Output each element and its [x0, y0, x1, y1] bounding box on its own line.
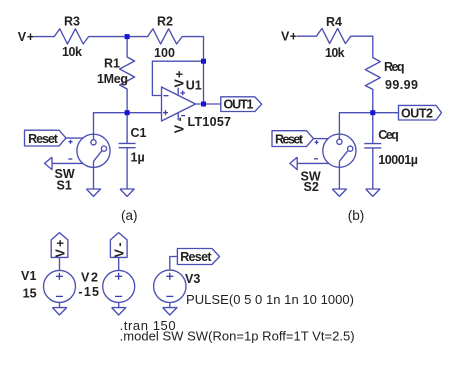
svg-text:R1: R1: [104, 57, 120, 71]
svg-text:R3: R3: [64, 15, 80, 29]
svg-text:U1: U1: [186, 79, 202, 93]
svg-text:1µ: 1µ: [131, 151, 145, 165]
svg-text:10001µ: 10001µ: [378, 153, 418, 167]
svg-text:R4: R4: [326, 15, 342, 29]
svg-text:10k: 10k: [325, 46, 345, 60]
svg-text:C1: C1: [131, 126, 147, 140]
svg-text:V-: V-: [113, 243, 127, 258]
svg-text:S2: S2: [304, 180, 319, 194]
svg-text:100: 100: [154, 46, 175, 60]
svg-text:V+: V+: [18, 30, 34, 44]
svg-text:OUT2: OUT2: [401, 106, 433, 120]
svg-text:LT1057: LT1057: [188, 115, 232, 129]
svg-text:OUT1: OUT1: [224, 98, 254, 112]
svg-text:Reset: Reset: [28, 132, 59, 146]
svg-text:V3: V3: [185, 272, 200, 286]
svg-text:(b): (b): [348, 208, 365, 223]
svg-text:(a): (a): [121, 208, 138, 223]
svg-text:Reset: Reset: [275, 133, 304, 147]
svg-text:PULSE(0 5 0 1n 1n 10 1000): PULSE(0 5 0 1n 1n 10 1000): [186, 292, 354, 307]
svg-text:S1: S1: [57, 179, 72, 193]
svg-text:99.99: 99.99: [385, 78, 418, 92]
svg-text:-15: -15: [78, 285, 99, 299]
svg-text:1Meg: 1Meg: [97, 72, 128, 86]
svg-text:.model SW SW(Ron=1p Roff=1T Vt: .model SW SW(Ron=1p Roff=1T Vt=2.5): [120, 329, 355, 344]
svg-text:Reset: Reset: [180, 250, 212, 264]
svg-text:Req: Req: [384, 60, 405, 74]
svg-text:10k: 10k: [62, 45, 82, 59]
svg-text:15: 15: [23, 287, 37, 301]
svg-text:V+: V+: [281, 29, 297, 43]
svg-text:R2: R2: [157, 15, 173, 29]
svg-text:V1: V1: [21, 269, 37, 283]
svg-text:Ceq: Ceq: [378, 128, 399, 142]
